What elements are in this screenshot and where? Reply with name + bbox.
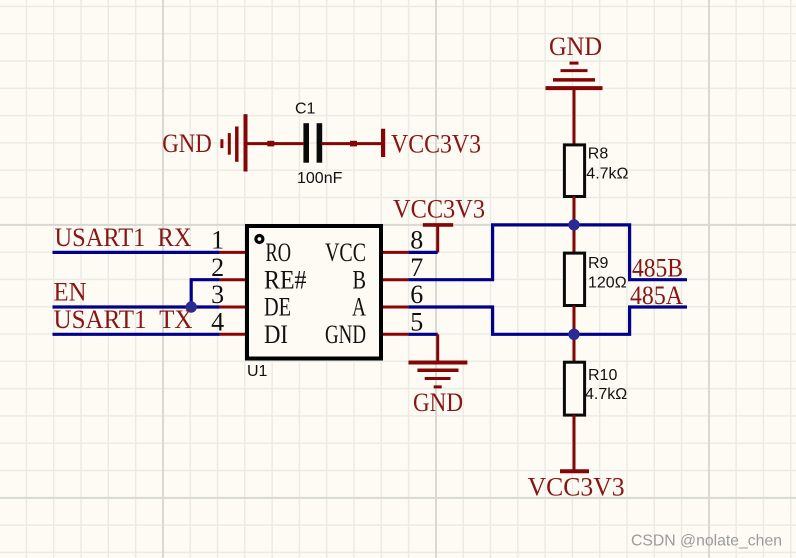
resistor R10 [564, 362, 627, 415]
svg-text:GND: GND [162, 129, 212, 158]
wire GND to R8 [573, 88, 576, 145]
svg-text:A: A [352, 293, 366, 322]
wire EN to pin 3 [53, 305, 220, 308]
svg-text:USART1 TX: USART1 TX [54, 305, 193, 334]
svg-text:R8: R8 [588, 146, 609, 163]
svg-text:6: 6 [410, 280, 423, 309]
svg-text:USART1 RX: USART1 RX [55, 223, 192, 252]
power VCC3V3 (below R10) [528, 471, 625, 501]
svg-text:B: B [353, 265, 367, 294]
pin 7 [383, 278, 408, 281]
capacitor C1 [295, 101, 343, 188]
wire net A: pin 6 to 485A [408, 307, 687, 334]
svg-text:C1: C1 [295, 101, 316, 118]
svg-text:EN: EN [54, 278, 87, 307]
svg-text:1: 1 [211, 226, 224, 255]
svg-text:VCC3V3: VCC3V3 [528, 473, 625, 502]
wire R8 to junction [573, 196, 576, 225]
power VCC3V3 (right of C1) [383, 129, 481, 159]
svg-text:4.7kΩ: 4.7kΩ [585, 386, 627, 403]
svg-text:7: 7 [410, 253, 423, 282]
svg-text:4: 4 [211, 308, 224, 337]
pin 8 [383, 251, 408, 254]
svg-text:VCC: VCC [325, 238, 366, 267]
wire USART1_RX to pin 1 [53, 251, 220, 254]
ground GND (below pin 5) [409, 334, 468, 417]
wire pin 8 to VCC3V3 stem [408, 251, 437, 254]
pin 5 [383, 333, 408, 336]
wire R10 to VCC3V3 [573, 415, 576, 471]
svg-text:5: 5 [410, 308, 423, 337]
wire GND to C1 left plate [246, 142, 305, 145]
wire R9 to junction [573, 306, 576, 335]
svg-text:CSDN @nolate_chen: CSDN @nolate_chen [631, 533, 782, 550]
wire net B: pin 7 to 485B [408, 225, 687, 280]
svg-text:R9: R9 [588, 255, 609, 272]
power VCC3V3 (above pin 8) [393, 195, 485, 225]
svg-text:3: 3 [211, 280, 224, 309]
svg-text:VCC3V3: VCC3V3 [391, 129, 481, 158]
op-amp U1 (RS-485 transceiver body) [247, 226, 381, 380]
svg-text:DI: DI [264, 320, 288, 349]
wire junction to R9 [573, 225, 576, 253]
svg-text:U1: U1 [247, 363, 268, 380]
svg-text:RO: RO [266, 238, 292, 267]
junction B rail [568, 219, 579, 230]
wire USART1_TX to pin 4 [53, 333, 220, 336]
ground GND (top, above R8) [546, 32, 603, 88]
pin 4 [220, 333, 245, 336]
ground GND (left of C1) [162, 114, 245, 171]
svg-text:485B: 485B [632, 254, 683, 283]
junction A rail [568, 329, 579, 340]
resistor R8 [564, 145, 628, 197]
wire VCC3V3 to pin 8 [436, 225, 439, 253]
svg-text:8: 8 [410, 226, 423, 255]
wire C1 right plate to VCC3V3 [322, 142, 382, 145]
svg-text:120Ω: 120Ω [588, 275, 627, 292]
pin 1 [220, 251, 245, 254]
svg-text:100nF: 100nF [297, 170, 343, 187]
wire junction to R10 [573, 334, 576, 362]
resistor R9 [564, 253, 626, 305]
svg-text:2: 2 [211, 253, 224, 282]
pin 3 [220, 306, 245, 309]
pin 2 [220, 278, 245, 281]
junction EN node [186, 301, 197, 312]
svg-text:VCC3V3: VCC3V3 [393, 195, 485, 224]
pin 6 [383, 306, 408, 309]
svg-text:GND: GND [325, 320, 366, 349]
wire EN branch to pin 2 [191, 280, 219, 307]
svg-text:GND: GND [549, 32, 602, 61]
svg-text:DE: DE [264, 293, 291, 322]
svg-text:R10: R10 [588, 367, 617, 384]
svg-text:4.7kΩ: 4.7kΩ [586, 165, 628, 182]
pin 1 marker dot [256, 236, 263, 243]
wire pin 5 to GND stem [408, 333, 437, 336]
svg-text:485A: 485A [630, 281, 683, 310]
svg-text:GND: GND [413, 388, 463, 417]
svg-text:RE#: RE# [264, 265, 307, 294]
